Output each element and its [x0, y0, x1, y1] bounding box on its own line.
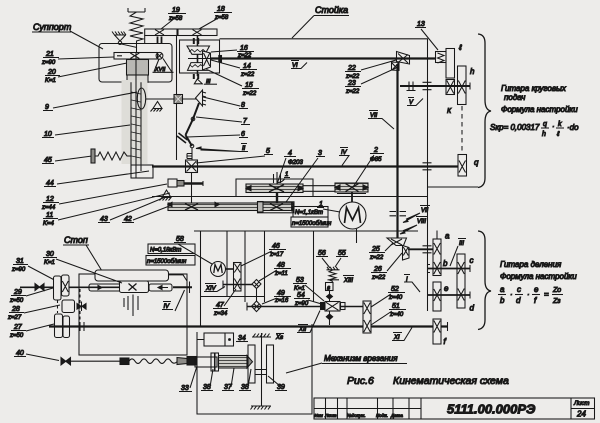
shaft XIV — [223, 284, 253, 286]
bevel trio housing box — [180, 40, 220, 73]
svg-text:44: 44 — [46, 180, 54, 187]
svg-text:2: 2 — [373, 147, 378, 154]
svg-text:b: b — [500, 296, 505, 305]
label 25 Z=22 — [369, 243, 393, 261]
leadscrew column — [131, 53, 153, 178]
bevel diamond below clutch — [326, 311, 332, 325]
svg-text:VIII: VIII — [417, 219, 426, 225]
bevel gear 14 with X — [203, 51, 211, 70]
svg-text:Ф85: Ф85 — [370, 157, 382, 163]
shaft VI horizontal — [188, 58, 212, 60]
support body housing — [99, 44, 172, 83]
label 20 K=1 — [45, 63, 127, 84]
bevel 22 on shaft VI — [397, 52, 410, 65]
power boxes 58 — [146, 244, 195, 265]
svg-text:6: 6 — [241, 131, 245, 138]
svg-text:28: 28 — [11, 306, 20, 313]
label II — [196, 144, 248, 153]
housing split line — [152, 196, 428, 198]
label IV — [339, 148, 349, 166]
bearing XII left — [246, 303, 248, 311]
label 31 Z=90 — [11, 258, 62, 284]
label 10 — [42, 125, 130, 138]
svg-text:48: 48 — [277, 262, 285, 269]
svg-text:z=90: z=90 — [294, 301, 309, 307]
svg-text:z=40: z=40 — [388, 295, 403, 301]
svg-text:Дата: Дата — [390, 413, 403, 418]
svg-text:46: 46 — [272, 243, 280, 250]
svg-text:n=1500об/мин: n=1500об/мин — [147, 259, 187, 265]
gear column 46-47 — [234, 263, 242, 292]
svg-text:III: III — [459, 241, 464, 247]
svg-text:z=34: z=34 — [213, 311, 228, 317]
label 51 Z=40 — [371, 303, 406, 325]
svg-text:26: 26 — [373, 266, 382, 273]
vrezanie box — [197, 324, 312, 414]
stop housing top bump — [95, 270, 169, 281]
svg-text:·: · — [510, 290, 513, 299]
bearing ticks XI — [80, 322, 84, 331]
svg-text:34: 34 — [238, 335, 246, 342]
gear 18 bar — [178, 29, 217, 36]
label 53 K=1 — [293, 277, 324, 301]
dividing unit housing top — [194, 230, 418, 232]
svg-text:q: q — [543, 121, 547, 128]
thrust bearing on VII — [390, 212, 407, 216]
label IV bottom — [162, 290, 185, 311]
label 48 Z=11 — [259, 262, 291, 281]
shaft VII vertical — [396, 64, 398, 238]
svg-text:·: · — [552, 122, 555, 131]
svg-text:Хв: Хв — [275, 335, 283, 341]
svg-text:24: 24 — [576, 410, 586, 419]
title block list cell — [573, 401, 589, 419]
svg-text:z=90: z=90 — [41, 60, 56, 66]
label 45 — [42, 156, 92, 164]
slash marks 6 — [177, 133, 188, 143]
svg-text:31: 31 — [16, 258, 24, 265]
box B — [326, 283, 334, 292]
stoyka frame right vertical — [427, 39, 429, 312]
shaft V — [400, 85, 470, 87]
bevel 23 on shaft VII — [392, 62, 400, 71]
svg-text:d: d — [516, 296, 521, 305]
svg-text:43: 43 — [100, 216, 108, 223]
motor 1 circle — [339, 202, 366, 229]
svg-text:z=22: z=22 — [242, 91, 257, 97]
motor M58 — [211, 262, 234, 277]
svg-text:5: 5 — [266, 148, 270, 155]
label 52 Z=40 — [371, 286, 405, 307]
svg-text:Подп.: Подп. — [376, 413, 388, 418]
gear 21 bar — [114, 53, 158, 60]
formula Skr — [490, 121, 579, 138]
below clutch vertical — [191, 173, 193, 204]
gear h column — [458, 66, 476, 105]
stop housing box — [79, 274, 187, 355]
bearing on shaft III bottom — [194, 74, 198, 79]
svg-text:z=58: z=58 — [214, 15, 229, 21]
pulley 39 discs — [248, 333, 274, 406]
hatched support triangle low — [160, 190, 172, 201]
svg-text:15: 15 — [245, 82, 253, 89]
gear 30 X-box — [120, 281, 149, 293]
shaft XII — [247, 306, 363, 308]
comb stop — [187, 154, 192, 159]
motor link — [351, 192, 353, 203]
bevel diamond 49 — [252, 301, 262, 312]
leadscrew nut blocks — [127, 60, 149, 83]
label XB — [275, 334, 284, 342]
comb fork under rack — [124, 295, 138, 317]
pulley ground hatch — [251, 406, 272, 410]
spring (vertical coil) — [128, 8, 145, 53]
svg-text:Формула настройки: Формула настройки — [500, 272, 577, 281]
brace gitara deleniya — [478, 231, 491, 330]
label 4 F203 — [277, 150, 303, 184]
svg-text:47: 47 — [216, 302, 225, 309]
crossed circle (worm 20) — [156, 52, 163, 59]
motor bottom stub — [356, 229, 358, 243]
dashed shaft h-q — [461, 106, 463, 153]
svg-text:h: h — [470, 67, 475, 76]
bearing pair on shaft I at 277 — [274, 172, 281, 184]
gear column 52-51 — [363, 301, 371, 333]
label 5 — [196, 148, 273, 163]
text gitara krugovyh — [501, 84, 578, 114]
bevel 25 trapezoid — [387, 238, 407, 246]
gear column a-b — [433, 239, 441, 276]
gear k with X — [446, 80, 455, 116]
gear bar 41 (row B long) — [168, 202, 294, 213]
joint nodes — [190, 117, 195, 148]
rack left bar — [89, 284, 122, 291]
svg-text:9: 9 — [45, 104, 49, 111]
label VII lower — [403, 206, 430, 223]
svg-text:XVII: XVII — [154, 67, 166, 73]
svg-text:Ф203: Ф203 — [288, 160, 303, 166]
svg-text:29: 29 — [13, 289, 22, 296]
label VIII — [400, 217, 428, 235]
label VI — [291, 61, 307, 70]
svg-text:z=22: z=22 — [371, 275, 386, 281]
svg-text:21: 21 — [45, 51, 54, 58]
svg-text:Кинематическая схема: Кинематическая схема — [393, 375, 509, 387]
svg-text:ℓ: ℓ — [458, 43, 462, 52]
label 18 Z=58 — [199, 6, 232, 29]
bearing on shaft V — [407, 82, 416, 91]
stoyka frame top — [220, 38, 428, 40]
svg-text:Стойка: Стойка — [315, 5, 348, 15]
bottom cone of shaft III — [194, 79, 202, 84]
letter labels a b c d e f — [443, 232, 475, 347]
bowtie shaft 40 — [61, 358, 71, 365]
label 46 Z=17 — [241, 243, 286, 266]
shaft b-c — [428, 268, 470, 270]
svg-text:49: 49 — [277, 290, 285, 297]
svg-text:e: e — [534, 285, 539, 294]
svg-text:n=1500об/мин: n=1500об/мин — [292, 221, 332, 227]
clutch X-box on shaft II — [186, 160, 198, 173]
label 26 Z=22 — [371, 253, 402, 281]
svg-text:z=58: z=58 — [168, 16, 183, 22]
hatched support under link — [151, 102, 163, 112]
shaft a horizontal — [408, 248, 433, 250]
gear column c-d — [457, 254, 465, 308]
bracket b left — [428, 265, 431, 273]
caption Ris.6 — [347, 375, 509, 387]
labels 38 37 38 39 — [201, 369, 213, 391]
svg-text:4: 4 — [288, 150, 292, 157]
counterweight pivot — [112, 32, 137, 48]
label 33 — [179, 366, 197, 392]
svg-text:K=1: K=1 — [45, 78, 56, 84]
svg-text:z=40: z=40 — [389, 312, 404, 318]
label 56 — [316, 250, 330, 268]
col a stub — [436, 231, 438, 240]
bearing XIV — [223, 281, 227, 289]
svg-text:z=16: z=16 — [274, 298, 289, 304]
label 43 — [98, 198, 163, 223]
label 8 — [203, 97, 248, 109]
shaft III vertical (bevel trio axis) — [197, 36, 199, 77]
thrust bearing a crossing — [423, 246, 432, 253]
svg-text:16: 16 — [240, 45, 248, 52]
label 12 Z=44 — [41, 184, 167, 211]
svg-text:XIII: XIII — [343, 278, 353, 284]
svg-text:z=22: z=22 — [369, 255, 384, 261]
svg-text:e: e — [444, 284, 449, 293]
svg-text:z=17: z=17 — [269, 252, 284, 258]
svg-text:30: 30 — [46, 251, 54, 258]
rack right bar — [149, 282, 192, 294]
label Стойка — [292, 5, 349, 38]
gearbox housing around row A — [236, 179, 313, 197]
coupling 13 — [436, 52, 447, 64]
svg-text:d: d — [470, 304, 475, 313]
label 7 — [196, 117, 250, 125]
label Суппорт — [32, 22, 103, 49]
svg-text:18: 18 — [217, 6, 225, 13]
universal joint box — [174, 95, 183, 104]
svg-text:k: k — [558, 121, 562, 128]
gear 2 bar F85 — [335, 183, 368, 194]
svg-text:38: 38 — [241, 384, 249, 391]
svg-text:14: 14 — [243, 63, 251, 70]
label 6 — [187, 131, 248, 138]
svg-text:c: c — [470, 256, 474, 265]
vertical shaft II — [191, 148, 193, 160]
vertical 48-49 — [256, 289, 258, 303]
spring 55 coil — [328, 270, 340, 282]
spring 45 horizontal — [91, 149, 131, 163]
svg-text:10: 10 — [44, 131, 52, 138]
gear 19 bar — [145, 29, 177, 36]
svg-text:12: 12 — [46, 196, 54, 203]
main shaft I horizontal — [152, 165, 458, 167]
svg-text:z=27: z=27 — [7, 315, 22, 321]
dashed clutch links — [58, 289, 81, 322]
svg-text:z=50: z=50 — [9, 298, 24, 304]
shaft VI collar — [219, 56, 222, 63]
label XI — [392, 328, 412, 342]
label I bottom — [404, 275, 420, 293]
svg-text:z=50: z=50 — [9, 333, 24, 339]
thrust bearing V crossing — [423, 82, 432, 89]
gear bar 5 (row A) — [246, 184, 303, 193]
label XIII — [343, 276, 354, 285]
bevel 26 side — [403, 246, 410, 261]
label 34 — [236, 335, 248, 342]
label 1 bearing — [278, 172, 290, 183]
svg-text:58: 58 — [176, 236, 184, 243]
svg-text:25: 25 — [371, 246, 380, 253]
thrust bearing I crossing — [423, 163, 432, 170]
svg-text:Zо: Zо — [552, 287, 561, 294]
svg-text:13: 13 — [417, 21, 425, 28]
formula deleniya — [498, 285, 563, 305]
link shaft to joint — [146, 98, 174, 100]
svg-text:3: 3 — [318, 150, 322, 157]
gear 29 rect with X — [62, 275, 70, 296]
label III small — [204, 79, 217, 85]
svg-text:27: 27 — [13, 324, 23, 331]
shaft e-d — [428, 294, 471, 296]
svg-text:38: 38 — [203, 384, 211, 391]
label Stop — [63, 235, 102, 271]
dividing unit inner walls — [201, 231, 314, 327]
svg-text:K=1: K=1 — [44, 260, 55, 266]
piston unit — [195, 353, 253, 371]
svg-text:z=22: z=22 — [345, 89, 360, 95]
label XIV — [204, 284, 225, 293]
label 58 — [174, 236, 212, 264]
svg-text:11: 11 — [46, 212, 53, 219]
label 44 — [44, 171, 149, 187]
svg-text:20: 20 — [47, 69, 56, 76]
svg-text:Лист: Лист — [573, 401, 589, 407]
label 14 Z=22 — [211, 60, 257, 78]
svg-text:52: 52 — [391, 286, 399, 293]
svg-text:Изм: Изм — [315, 413, 323, 418]
svg-text:z=90: z=90 — [11, 267, 26, 273]
label 9 — [43, 92, 137, 111]
svg-text:Механизм врезания: Механизм врезания — [324, 354, 398, 363]
bearing end XI right — [447, 322, 449, 331]
svg-text:N=1,1кВт: N=1,1кВт — [295, 210, 323, 216]
clutch bowtie 28 — [77, 302, 86, 312]
svg-text:a: a — [500, 285, 505, 294]
bearing on shaft III top — [194, 38, 198, 44]
label 30 K=1 — [43, 251, 122, 283]
svg-text:=: = — [544, 290, 549, 299]
label 16 Z=22 — [211, 45, 254, 59]
slide column tint — [122, 80, 148, 164]
label 47 Z=34 — [213, 289, 236, 317]
svg-text:Гитара круговых: Гитара круговых — [501, 84, 567, 93]
svg-text:22: 22 — [347, 65, 356, 72]
label 54 Z=90 — [294, 292, 325, 307]
label 2 F85 — [353, 147, 384, 187]
gear 27 rects — [55, 314, 70, 338]
label 28 Z=27 — [7, 305, 60, 321]
bevel gear 16 — [187, 46, 210, 54]
text mehanizm vrezaniya — [286, 354, 407, 373]
svg-text:45: 45 — [44, 157, 52, 164]
label 3 — [286, 150, 325, 202]
gear row B right X — [270, 202, 292, 212]
svg-text:Sкр= 0,00317: Sкр= 0,00317 — [490, 123, 540, 132]
svg-text:z=44: z=44 — [41, 205, 56, 211]
shaft II stub to gear2 — [303, 186, 335, 192]
gear 31 rect — [54, 276, 62, 300]
bevel diamond on XIII — [327, 291, 333, 302]
label III bottom — [450, 239, 466, 267]
label 21 Z=90 — [41, 51, 114, 66]
section divider line — [428, 186, 479, 188]
cylinder 34 — [197, 333, 234, 346]
svg-text:Формула настройки: Формула настройки — [501, 105, 578, 114]
svg-text:подач: подач — [504, 93, 525, 102]
svg-text:53: 53 — [296, 277, 304, 284]
label 40 — [14, 350, 59, 361]
rack shaft — [20, 286, 122, 288]
svg-text:Рис.6: Рис.6 — [347, 375, 374, 387]
svg-text:z=22: z=22 — [240, 72, 255, 78]
bevel diamond 48 — [252, 280, 261, 289]
svg-text:55: 55 — [338, 250, 346, 257]
text gitara deleniya — [500, 260, 577, 281]
label V — [407, 98, 423, 107]
svg-text:·: · — [527, 290, 530, 299]
label 22 Z=22 — [345, 60, 396, 80]
svg-text:51: 51 — [392, 303, 400, 310]
svg-text:b: b — [443, 259, 448, 268]
svg-text:h: h — [542, 131, 546, 138]
svg-text:N=0,18кВт: N=0,18кВт — [150, 248, 181, 254]
vertical guide rod — [176, 36, 178, 160]
svg-text:Суппорт: Суппорт — [33, 22, 72, 32]
clutch 53-54 X-box — [321, 302, 346, 312]
label 42 — [122, 205, 172, 223]
svg-text:VII: VII — [421, 208, 429, 214]
svg-text:K=4: K=4 — [43, 221, 55, 227]
svg-text:23: 23 — [347, 80, 356, 87]
title block frame — [314, 398, 595, 419]
svg-text:q: q — [474, 158, 479, 167]
svg-text:33: 33 — [181, 385, 189, 392]
svg-text:Стоп: Стоп — [64, 235, 88, 245]
svg-text:8: 8 — [241, 102, 245, 109]
label 49 Z=16 — [262, 290, 291, 304]
label 15 Z=22 — [208, 70, 259, 97]
spring 55 anchor — [327, 267, 340, 270]
bearing block on shaft XVII — [158, 37, 162, 45]
svg-text:Гитара деления: Гитара деления — [500, 260, 562, 269]
label 55 — [335, 250, 348, 267]
svg-text:42: 42 — [124, 216, 132, 223]
bowtie on rack shaft left — [35, 284, 44, 291]
cone friction wheel right — [183, 90, 207, 106]
label 23 Z=22 — [345, 68, 396, 95]
svg-text:a: a — [445, 232, 450, 241]
svg-text:№докум.: №докум. — [347, 413, 366, 418]
svg-text:5111.00.000РЭ: 5111.00.000РЭ — [447, 402, 536, 417]
svg-text:56: 56 — [318, 250, 326, 257]
label 13 — [415, 21, 438, 50]
label 27 Z=50 — [9, 324, 54, 339]
shaft XI long — [49, 325, 448, 327]
